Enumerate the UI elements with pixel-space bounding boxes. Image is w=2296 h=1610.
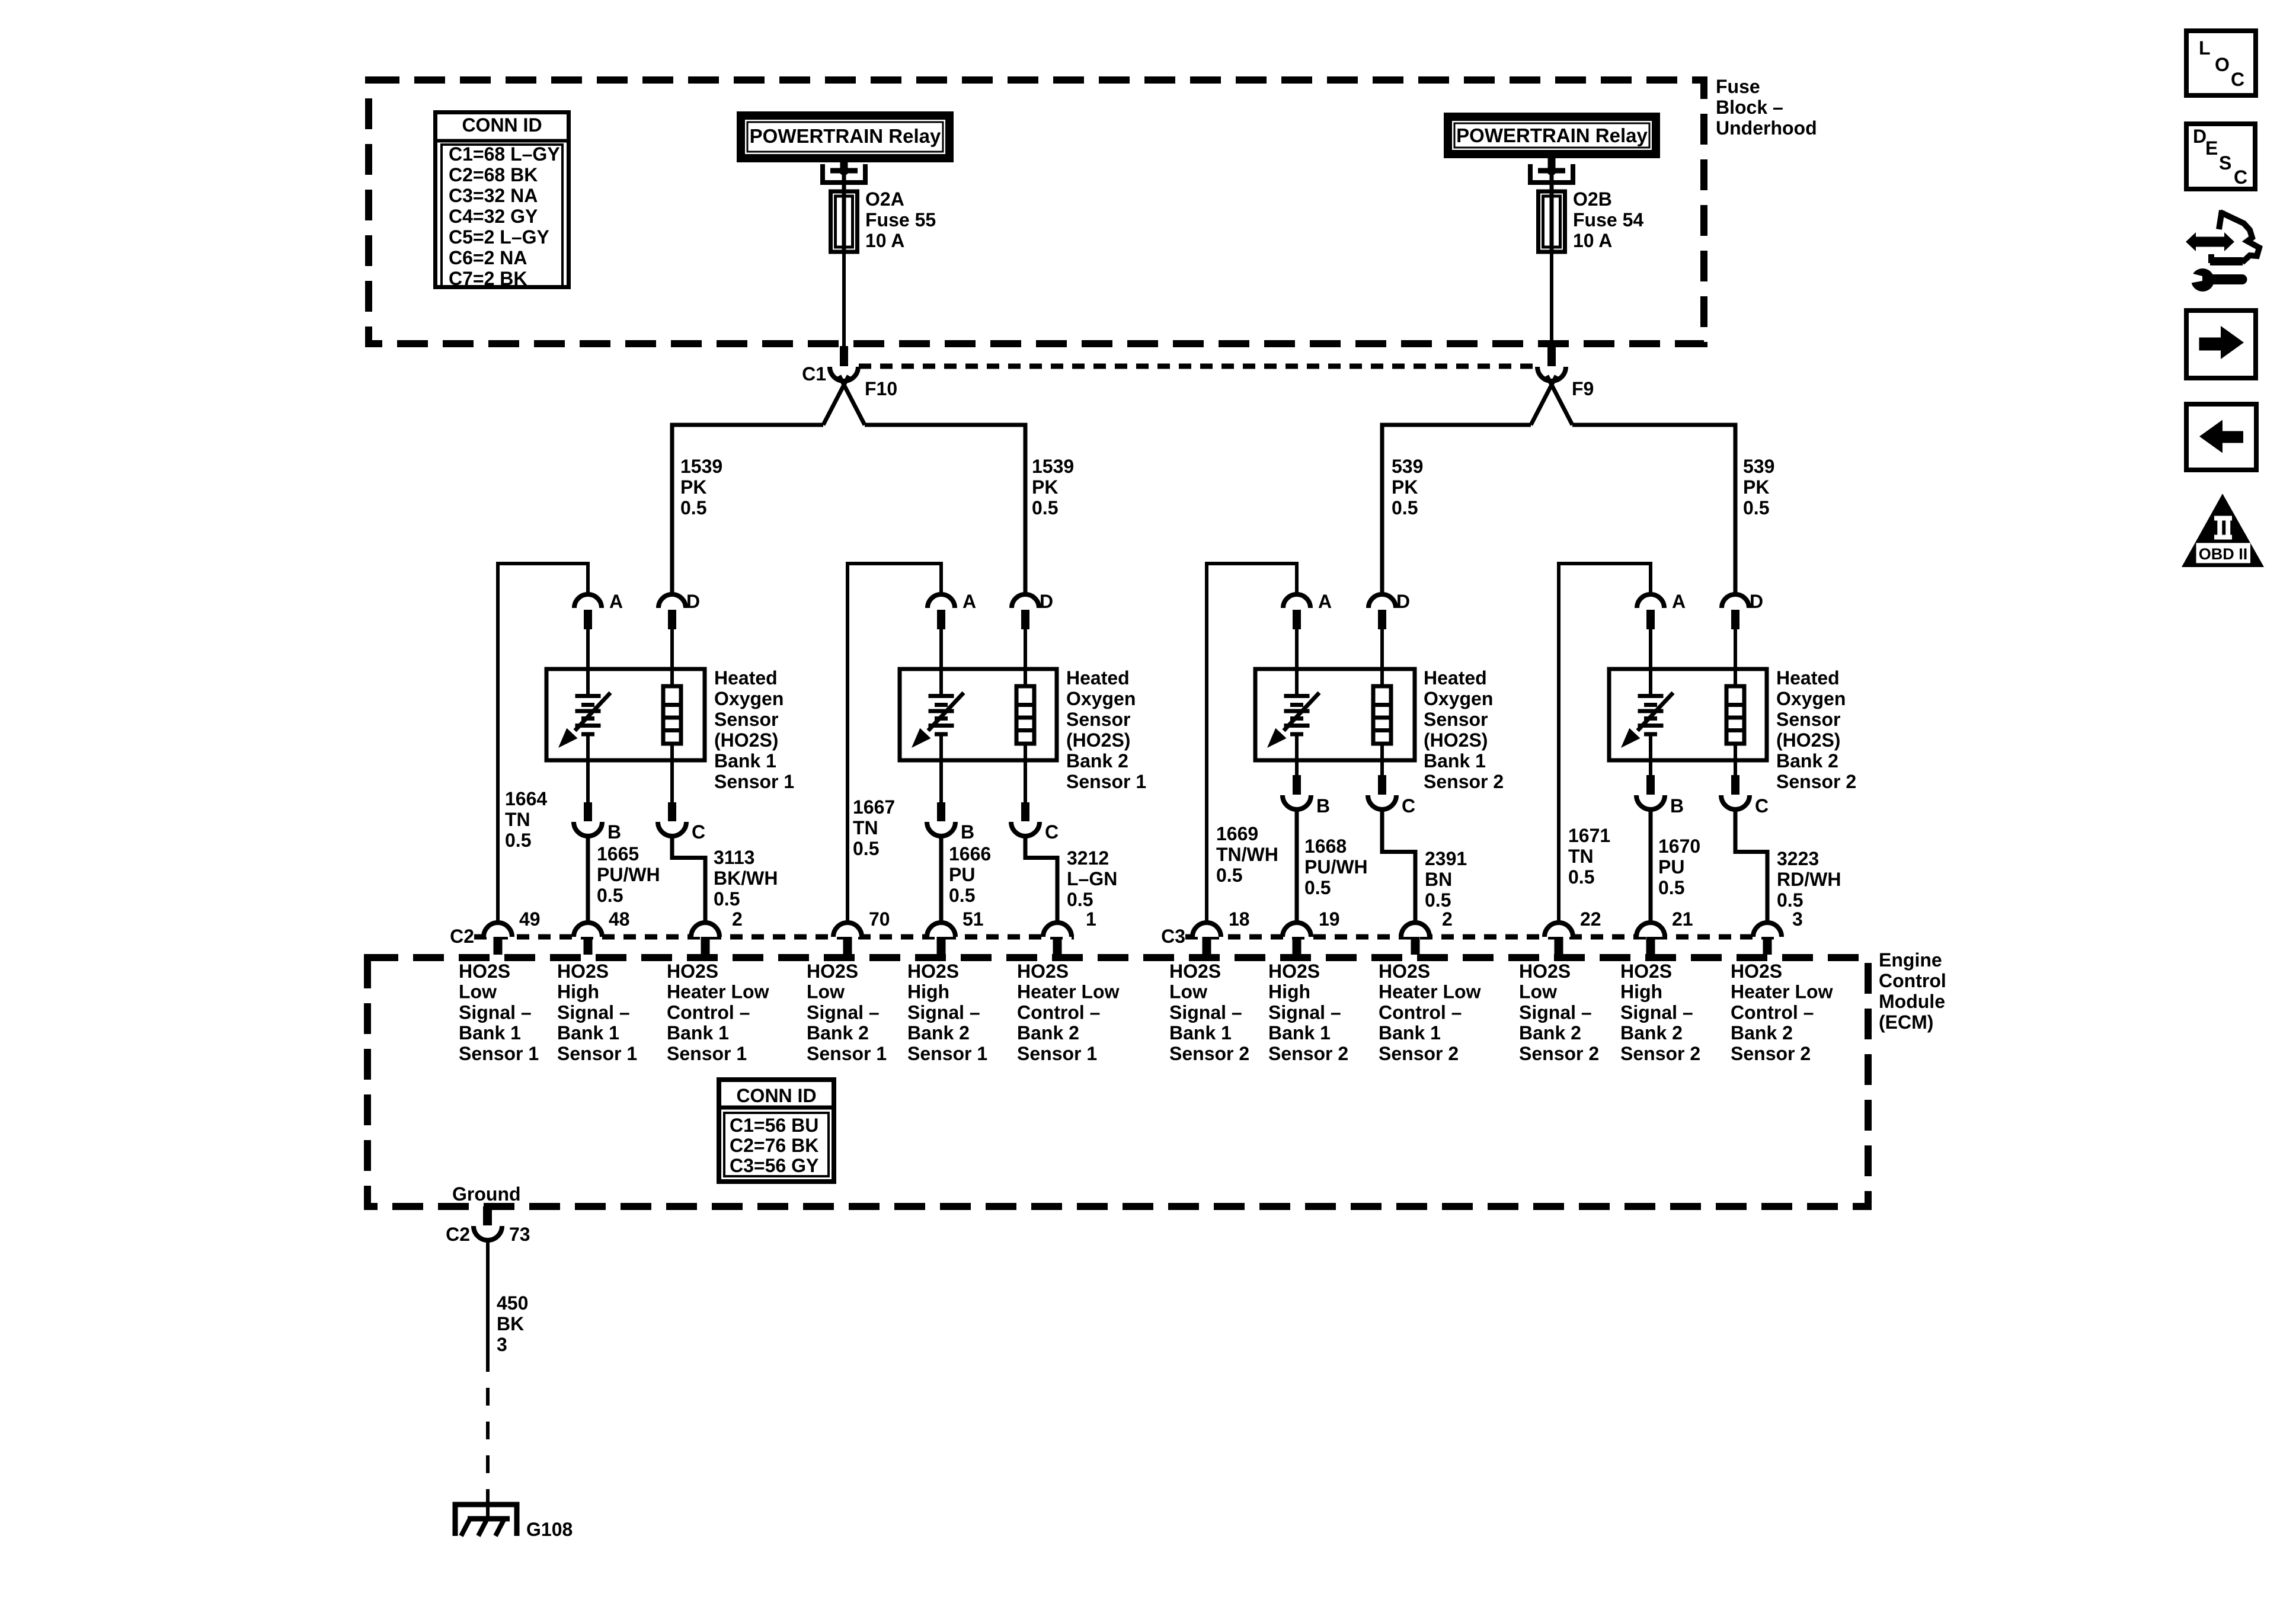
- svg-text:Underhood: Underhood: [1716, 117, 1817, 139]
- svg-text:S: S: [2219, 152, 2231, 174]
- ECM connector cavity pin 2: [691, 908, 743, 955]
- ground symbol G108: [455, 1505, 573, 1540]
- svg-text:HO2S: HO2S: [807, 961, 858, 982]
- svg-text:21: 21: [1672, 908, 1693, 930]
- wire: HO2S Bank 2 Sensor 2 signal low 1671 with top jog: [1559, 564, 1651, 923]
- svg-text:D: D: [1396, 591, 1410, 612]
- svg-text:22: 22: [1580, 908, 1601, 930]
- wire: HO2S Bank 1 Sensor 1 C heater low with jog to ECM pin 2: [672, 836, 705, 923]
- svg-text:C1=56 BU: C1=56 BU: [730, 1115, 818, 1136]
- connector C1 cavity F9 with splice: [1531, 346, 1594, 425]
- svg-text:D: D: [1040, 591, 1053, 612]
- svg-text:HO2S: HO2S: [1169, 961, 1221, 982]
- svg-text:0.5: 0.5: [853, 838, 879, 859]
- wire: fuse O2A to connector C1 F10: [842, 252, 846, 347]
- svg-text:(HO2S): (HO2S): [1424, 729, 1488, 751]
- svg-text:Bank 2: Bank 2: [1519, 1022, 1581, 1044]
- sensor element (variable voltage source) inside HO2S Bank 2 Sensor 1: [912, 669, 964, 760]
- svg-text:C3: C3: [1161, 926, 1185, 947]
- wire: HO2S Bank 2 Sensor 1 C heater low with jog to ECM pin 1: [1025, 836, 1057, 923]
- ECM pin function label column 1: HO2S Low Signal – Bank 1 Sensor 1: [459, 961, 539, 1064]
- svg-text:B: B: [1670, 795, 1684, 817]
- svg-text:0.5: 0.5: [1743, 497, 1769, 518]
- svg-text:Sensor 2: Sensor 2: [1169, 1043, 1249, 1064]
- ECM connector cavity pin 48: [574, 908, 630, 955]
- svg-text:Heater Low: Heater Low: [1731, 981, 1833, 1003]
- svg-text:Low: Low: [459, 981, 497, 1003]
- label connector C3: [1161, 926, 1185, 947]
- svg-text:Signal –: Signal –: [807, 1001, 880, 1023]
- label: Heated Oxygen Sensor (HO2S) Bank 1 Sensor 2: [1424, 667, 1504, 792]
- ECM pin function label column 2: HO2S High Signal – Bank 1 Sensor 1: [557, 961, 637, 1064]
- label: Heated Oxygen Sensor (HO2S) Bank 2 Sensor 1: [1066, 667, 1146, 792]
- wire: HO2S Bank 1 Sensor 1 B to ECM pin 48: [586, 836, 590, 923]
- svg-text:Bank 1: Bank 1: [714, 750, 776, 772]
- svg-text:Heater Low: Heater Low: [667, 981, 769, 1003]
- svg-text:0.5: 0.5: [1425, 889, 1451, 911]
- svg-text:1539: 1539: [680, 456, 722, 477]
- svg-text:HO2S: HO2S: [1620, 961, 1672, 982]
- svg-text:Signal –: Signal –: [1169, 1001, 1242, 1023]
- icon: OBD II triangle: [2182, 494, 2264, 567]
- sensor element (variable voltage source) inside HO2S Bank 1 Sensor 1: [558, 669, 610, 760]
- svg-text:Sensor 2: Sensor 2: [1731, 1043, 1811, 1064]
- svg-text:Bank 2: Bank 2: [1731, 1022, 1793, 1044]
- wire 450 BK dashed segment: [486, 1354, 490, 1505]
- svg-text:1: 1: [1086, 908, 1096, 930]
- svg-text:Bank 1: Bank 1: [557, 1022, 619, 1044]
- svg-text:Bank 1: Bank 1: [1379, 1022, 1441, 1044]
- connector row C3 dotted line: [1185, 934, 1782, 940]
- wire: HO2S Bank 2 Sensor 1 B to ECM pin 51: [939, 836, 944, 923]
- svg-text:A: A: [609, 591, 623, 612]
- svg-text:Oxygen: Oxygen: [1776, 688, 1846, 709]
- wire label 1671 TN 0.5: [1568, 825, 1610, 888]
- sensor element (variable voltage source) inside HO2S Bank 1 Sensor 2: [1267, 669, 1319, 760]
- svg-text:E: E: [2205, 137, 2218, 159]
- svg-text:0.5: 0.5: [1216, 865, 1242, 886]
- svg-text:0.5: 0.5: [505, 830, 531, 851]
- svg-text:2391: 2391: [1425, 848, 1467, 869]
- svg-text:C2: C2: [450, 926, 474, 947]
- wire label 539 PK 0.5 (right): [1743, 456, 1774, 518]
- svg-text:B: B: [607, 821, 621, 843]
- svg-text:Bank 2: Bank 2: [1017, 1022, 1079, 1044]
- relay: POWERTRAIN Relay (right): [1444, 113, 1660, 158]
- svg-text:C: C: [2231, 69, 2244, 90]
- svg-text:PU: PU: [949, 864, 975, 885]
- wire label 1665 PU/WH 0.5: [597, 843, 660, 906]
- svg-text:OBD II: OBD II: [2199, 545, 2248, 563]
- svg-text:Fuse 54: Fuse 54: [1573, 209, 1643, 231]
- svg-text:C3=32 NA: C3=32 NA: [449, 185, 538, 206]
- svg-text:C6=2 NA: C6=2 NA: [449, 247, 527, 268]
- svg-text:3212: 3212: [1067, 847, 1109, 869]
- svg-text:1668: 1668: [1304, 836, 1347, 857]
- svg-text:C: C: [1402, 795, 1415, 817]
- svg-text:RD/WH: RD/WH: [1777, 869, 1841, 890]
- svg-text:B: B: [961, 821, 974, 843]
- connector pin B of HO2S Bank 2 Sensor 2: [1636, 760, 1684, 817]
- svg-text:BK: BK: [497, 1313, 524, 1334]
- svg-text:F10: F10: [865, 378, 897, 399]
- svg-text:Heated: Heated: [714, 667, 778, 689]
- svg-text:Module: Module: [1879, 991, 1945, 1012]
- svg-text:450: 450: [497, 1292, 528, 1314]
- svg-text:(HO2S): (HO2S): [1066, 729, 1130, 751]
- svg-text:PU: PU: [1658, 856, 1684, 878]
- svg-text:PU/WH: PU/WH: [1304, 856, 1368, 878]
- ECM ground pin stub: [483, 1206, 492, 1225]
- svg-text:Signal –: Signal –: [907, 1001, 980, 1023]
- svg-text:Sensor 1: Sensor 1: [714, 771, 794, 792]
- ECM connector cavity pin 21: [1636, 908, 1693, 955]
- svg-text:(ECM): (ECM): [1879, 1012, 1933, 1033]
- connector pin D of HO2S Bank 1 Sensor 1: [658, 591, 700, 671]
- ECM pin function label column 10: HO2S Low Signal – Bank 2 Sensor 2: [1519, 961, 1599, 1064]
- icon: forward arrow box: [2186, 311, 2256, 378]
- svg-text:High: High: [557, 981, 599, 1003]
- svg-text:Sensor: Sensor: [714, 709, 778, 730]
- svg-text:Sensor 2: Sensor 2: [1620, 1043, 1700, 1064]
- svg-text:HO2S: HO2S: [1519, 961, 1571, 982]
- connector pin C of HO2S Bank 1 Sensor 1: [658, 760, 705, 843]
- label: Heated Oxygen Sensor (HO2S) Bank 2 Sensor 2: [1776, 667, 1856, 792]
- CONN ID table (ECM connectors): [717, 1080, 836, 1182]
- icon: harness routing wrench with double arrow: [2186, 210, 2259, 292]
- svg-text:Signal –: Signal –: [1620, 1001, 1693, 1023]
- ground connector C2 cavity 73: [446, 1224, 530, 1245]
- svg-text:HO2S: HO2S: [459, 961, 510, 982]
- svg-text:(HO2S): (HO2S): [1776, 729, 1840, 751]
- connector pin A of HO2S Bank 1 Sensor 2: [1283, 591, 1332, 671]
- svg-text:73: 73: [509, 1224, 530, 1245]
- svg-text:A: A: [962, 591, 976, 612]
- heater element inside HO2S Bank 2 Sensor 1: [1016, 669, 1034, 760]
- svg-text:Signal –: Signal –: [1519, 1001, 1592, 1023]
- connector row C2 dotted line: [474, 934, 1074, 940]
- wire: HO2S Bank 2 Sensor 1 signal low 1667 with top jog: [848, 564, 941, 923]
- svg-text:HO2S: HO2S: [557, 961, 609, 982]
- svg-text:HO2S: HO2S: [667, 961, 718, 982]
- ECM connector cavity pin 18: [1192, 908, 1250, 955]
- svg-text:Low: Low: [1519, 981, 1557, 1003]
- wire label 3223 RD/WH 0.5: [1777, 848, 1841, 911]
- connector pin C of HO2S Bank 2 Sensor 2: [1721, 760, 1769, 817]
- wire: HO2S Bank 2 Sensor 2 C heater low with jog to ECM pin 3: [1735, 809, 1767, 923]
- ECM pin function label column 8: HO2S High Signal – Bank 1 Sensor 2: [1268, 961, 1348, 1064]
- svg-text:C2: C2: [446, 1224, 470, 1245]
- svg-text:A: A: [1318, 591, 1332, 612]
- svg-text:HO2S: HO2S: [907, 961, 959, 982]
- wire: HO2S Bank 1 Sensor 1 signal low 1664 with top jog: [498, 564, 588, 923]
- svg-text:3113: 3113: [714, 847, 754, 868]
- svg-text:Bank 2: Bank 2: [1066, 750, 1128, 772]
- svg-text:Signal –: Signal –: [459, 1001, 532, 1023]
- sensor box outline HO2S Bank 1 Sensor 2: [1255, 669, 1415, 760]
- svg-text:Bank 1: Bank 1: [459, 1022, 521, 1044]
- svg-text:70: 70: [869, 908, 890, 930]
- ECM connector cavity pin 70: [833, 908, 890, 955]
- svg-text:49: 49: [519, 908, 541, 930]
- svg-text:Sensor: Sensor: [1066, 709, 1130, 730]
- svg-text:3: 3: [497, 1334, 507, 1355]
- label Ground: [452, 1183, 521, 1205]
- svg-text:C5=2 L–GY: C5=2 L–GY: [449, 226, 549, 248]
- label connector C2: [450, 926, 474, 947]
- svg-text:18: 18: [1229, 908, 1250, 930]
- connector C1 cavity F10 with splice: [802, 346, 897, 425]
- svg-text:Sensor: Sensor: [1776, 709, 1840, 730]
- svg-text:1539: 1539: [1032, 456, 1074, 477]
- svg-text:Sensor 1: Sensor 1: [459, 1043, 539, 1064]
- svg-text:High: High: [1268, 981, 1310, 1003]
- icon: back arrow box: [2186, 404, 2256, 470]
- svg-text:1670: 1670: [1658, 836, 1700, 857]
- svg-text:O2B: O2B: [1573, 188, 1612, 210]
- connector pin C of HO2S Bank 2 Sensor 1: [1011, 760, 1059, 843]
- svg-text:C: C: [692, 821, 705, 843]
- wire label 3113 BK/WH 0.5: [714, 847, 778, 910]
- svg-text:3: 3: [1792, 908, 1803, 930]
- svg-text:1666: 1666: [949, 843, 991, 865]
- svg-text:L: L: [2199, 37, 2211, 59]
- wire label 1664 TN 0.5: [505, 788, 547, 851]
- ECM pin function label column 3: HO2S Heater Low Control – Bank 1 Sensor 1: [667, 961, 769, 1064]
- CONN ID table (fuse block connectors): [433, 113, 571, 290]
- svg-text:Sensor 1: Sensor 1: [667, 1043, 747, 1064]
- wire label 1667 TN 0.5: [853, 796, 895, 859]
- Engine Control Module dashed outline: [367, 958, 1868, 1206]
- connector pin B of HO2S Bank 1 Sensor 2: [1283, 760, 1330, 817]
- ECM connector cavity pin 22: [1544, 908, 1601, 955]
- svg-text:HO2S: HO2S: [1731, 961, 1782, 982]
- svg-text:Bank 2: Bank 2: [1776, 750, 1838, 772]
- svg-text:0.5: 0.5: [1568, 866, 1594, 888]
- svg-text:D: D: [686, 591, 700, 612]
- svg-text:Bank 1: Bank 1: [1169, 1022, 1232, 1044]
- wire 450 BK 3 solid segment: [486, 1240, 490, 1354]
- wire label 3212 L–GN 0.5: [1067, 847, 1117, 910]
- svg-text:0.5: 0.5: [1067, 889, 1093, 910]
- sensor element (variable voltage source) inside HO2S Bank 2 Sensor 2: [1621, 669, 1673, 760]
- connector pin A of HO2S Bank 2 Sensor 1: [928, 591, 976, 671]
- wire bus from F9 to HO2S B1S2/B2S2 heater supplies: [1382, 425, 1735, 595]
- svg-text:C2=68 BK: C2=68 BK: [449, 164, 538, 185]
- svg-text:2: 2: [1442, 908, 1453, 930]
- connector pin D of HO2S Bank 2 Sensor 2: [1722, 591, 1763, 671]
- icon: LOC box: [2186, 31, 2256, 95]
- svg-text:Sensor 1: Sensor 1: [907, 1043, 987, 1064]
- svg-text:Control: Control: [1879, 970, 1946, 991]
- svg-text:2: 2: [732, 908, 743, 930]
- wire: HO2S Bank 1 Sensor 2 B to ECM pin 19: [1295, 809, 1299, 923]
- connector pin A of HO2S Bank 1 Sensor 1: [574, 591, 623, 671]
- svg-text:POWERTRAIN Relay: POWERTRAIN Relay: [1456, 124, 1648, 146]
- svg-text:BK/WH: BK/WH: [714, 868, 778, 889]
- svg-text:Bank 1: Bank 1: [667, 1022, 729, 1044]
- svg-text:Control –: Control –: [667, 1001, 750, 1023]
- svg-text:PU/WH: PU/WH: [597, 864, 660, 885]
- svg-text:Sensor 1: Sensor 1: [1066, 771, 1146, 792]
- svg-text:C1: C1: [802, 363, 826, 385]
- svg-text:1667: 1667: [853, 796, 895, 818]
- svg-text:539: 539: [1392, 456, 1423, 477]
- heater element inside HO2S Bank 2 Sensor 2: [1726, 669, 1744, 760]
- fuse block - underhood dashed outline: [369, 80, 1704, 344]
- svg-text:0.5: 0.5: [1658, 877, 1684, 898]
- svg-text:Bank 2: Bank 2: [807, 1022, 869, 1044]
- svg-text:CONN ID: CONN ID: [736, 1085, 816, 1106]
- wire bus from F10 to HO2S B1S1/B2S1 heater supplies: [672, 425, 1025, 595]
- svg-text:HO2S: HO2S: [1268, 961, 1320, 982]
- svg-text:Heater Low: Heater Low: [1379, 981, 1481, 1003]
- svg-text:Block –: Block –: [1716, 97, 1783, 118]
- svg-text:C7=2 BK: C7=2 BK: [449, 268, 527, 289]
- svg-text:Sensor 1: Sensor 1: [1017, 1043, 1097, 1064]
- svg-text:Heater Low: Heater Low: [1017, 981, 1120, 1003]
- svg-text:0.5: 0.5: [680, 497, 706, 518]
- svg-text:3223: 3223: [1777, 848, 1819, 869]
- svg-text:C: C: [1755, 795, 1769, 817]
- wire label 1670 PU 0.5: [1658, 836, 1700, 898]
- heater element inside HO2S Bank 1 Sensor 2: [1373, 669, 1391, 760]
- svg-text:Control –: Control –: [1731, 1001, 1814, 1023]
- svg-text:Bank 1: Bank 1: [1268, 1022, 1331, 1044]
- connector pin A of HO2S Bank 2 Sensor 2: [1637, 591, 1686, 671]
- svg-text:PK: PK: [1392, 476, 1418, 498]
- ECM pin function label column 9: HO2S Heater Low Control – Bank 1 Sensor 2: [1379, 961, 1481, 1064]
- svg-text:Low: Low: [807, 981, 845, 1003]
- label: Engine Control Module (ECM): [1879, 949, 1946, 1033]
- wire: fuse O2B to connector C1 F9: [1550, 252, 1553, 347]
- svg-text:1665: 1665: [597, 843, 639, 865]
- svg-text:Low: Low: [1169, 981, 1207, 1003]
- wire into ground symbol: [486, 1493, 490, 1519]
- svg-text:Sensor 2: Sensor 2: [1519, 1043, 1599, 1064]
- svg-text:G108: G108: [526, 1519, 573, 1540]
- svg-text:POWERTRAIN Relay: POWERTRAIN Relay: [750, 125, 941, 147]
- svg-text:0.5: 0.5: [1392, 497, 1418, 518]
- svg-text:Control –: Control –: [1017, 1001, 1100, 1023]
- svg-text:Engine: Engine: [1879, 949, 1942, 971]
- svg-text:0.5: 0.5: [597, 885, 623, 906]
- ECM pin function label column 4: HO2S Low Signal – Bank 2 Sensor 1: [807, 961, 887, 1064]
- svg-text:Sensor 1: Sensor 1: [557, 1043, 637, 1064]
- sensor box outline HO2S Bank 2 Sensor 1: [900, 669, 1057, 760]
- svg-text:TN/WH: TN/WH: [1216, 844, 1278, 865]
- svg-text:10 A: 10 A: [1573, 230, 1612, 251]
- wire label 1669 TN/WH 0.5: [1216, 823, 1278, 886]
- svg-text:HO2S: HO2S: [1017, 961, 1069, 982]
- svg-text:C4=32 GY: C4=32 GY: [449, 206, 538, 227]
- svg-text:D: D: [1750, 591, 1763, 612]
- heater element inside HO2S Bank 1 Sensor 1: [663, 669, 681, 760]
- svg-text:(HO2S): (HO2S): [714, 729, 778, 751]
- svg-text:Bank 1: Bank 1: [1424, 750, 1486, 772]
- svg-text:Heated: Heated: [1776, 667, 1840, 689]
- svg-text:Signal –: Signal –: [1268, 1001, 1341, 1023]
- wire label 2391 BN 0.5: [1425, 848, 1467, 911]
- svg-text:Ground: Ground: [452, 1183, 521, 1205]
- ECM connector cavity pin 2: [1401, 908, 1453, 955]
- svg-text:Signal –: Signal –: [557, 1001, 630, 1023]
- svg-text:O: O: [2215, 54, 2230, 75]
- svg-text:C2=76 BK: C2=76 BK: [730, 1135, 818, 1156]
- svg-text:0.5: 0.5: [1304, 877, 1331, 898]
- svg-text:Heated: Heated: [1066, 667, 1130, 689]
- relay: POWERTRAIN Relay (left): [737, 111, 954, 162]
- wire: HO2S Bank 2 Sensor 2 B to ECM pin 21: [1649, 809, 1653, 923]
- sensor box outline HO2S Bank 2 Sensor 2: [1609, 669, 1767, 760]
- connector pin D of HO2S Bank 1 Sensor 2: [1368, 591, 1410, 671]
- svg-text:51: 51: [962, 908, 984, 930]
- svg-text:Fuse 55: Fuse 55: [865, 209, 936, 231]
- svg-text:1669: 1669: [1216, 823, 1258, 844]
- icon: DESC box: [2186, 124, 2255, 189]
- relay contact pin symbol (right relay): [1530, 158, 1573, 196]
- svg-text:Oxygen: Oxygen: [1066, 688, 1136, 709]
- svg-text:C1=68 L–GY: C1=68 L–GY: [449, 143, 560, 165]
- ECM connector cavity pin 49: [484, 908, 541, 955]
- fuse O2A Fuse 55 10 A: [831, 188, 936, 252]
- svg-text:Sensor 2: Sensor 2: [1776, 771, 1856, 792]
- svg-text:D: D: [2193, 126, 2207, 147]
- svg-text:Sensor 2: Sensor 2: [1424, 771, 1504, 792]
- svg-text:Oxygen: Oxygen: [1424, 688, 1493, 709]
- connector pin C of HO2S Bank 1 Sensor 2: [1368, 760, 1415, 817]
- svg-text:A: A: [1672, 591, 1686, 612]
- ECM pin function label column 7: HO2S Low Signal – Bank 1 Sensor 2: [1169, 961, 1249, 1064]
- svg-text:C: C: [2234, 167, 2247, 188]
- svg-text:HO2S: HO2S: [1379, 961, 1430, 982]
- svg-text:48: 48: [609, 908, 630, 930]
- svg-text:Sensor 1: Sensor 1: [807, 1043, 887, 1064]
- relay contact pin symbol (left relay): [823, 162, 865, 196]
- svg-text:0.5: 0.5: [1032, 497, 1058, 518]
- svg-text:TN: TN: [505, 809, 530, 830]
- svg-text:Sensor 2: Sensor 2: [1268, 1043, 1348, 1064]
- svg-text:C: C: [1045, 821, 1059, 843]
- svg-text:L–GN: L–GN: [1067, 868, 1117, 889]
- svg-text:TN: TN: [1568, 846, 1594, 867]
- svg-text:1671: 1671: [1568, 825, 1610, 846]
- svg-text:F9: F9: [1572, 378, 1594, 399]
- wire label 1666 PU 0.5: [949, 843, 991, 906]
- svg-text:High: High: [1620, 981, 1662, 1003]
- fuse O2B Fuse 54 10 A: [1539, 188, 1644, 252]
- svg-text:0.5: 0.5: [1777, 889, 1803, 911]
- ECM connector cavity pin 51: [927, 908, 984, 955]
- ECM pin function label column 11: HO2S High Signal – Bank 2 Sensor 2: [1620, 961, 1700, 1064]
- svg-text:O2A: O2A: [865, 188, 904, 210]
- connector pin B of HO2S Bank 2 Sensor 1: [927, 760, 974, 843]
- svg-text:High: High: [907, 981, 949, 1003]
- ECM connector cavity pin 19: [1283, 908, 1340, 955]
- svg-text:Fuse: Fuse: [1716, 76, 1760, 97]
- label: Fuse Block - Underhood: [1716, 76, 1817, 139]
- wire label 539 PK 0.5 (left): [1392, 456, 1423, 518]
- svg-text:CONN ID: CONN ID: [462, 114, 542, 136]
- wire: HO2S Bank 1 Sensor 2 signal low 1669 with top jog: [1207, 564, 1297, 923]
- wire: HO2S Bank 1 Sensor 2 C heater low with jog to ECM pin 2: [1382, 809, 1415, 923]
- label: Heated Oxygen Sensor (HO2S) Bank 1 Sensor 1: [714, 667, 794, 792]
- svg-text:TN: TN: [853, 817, 878, 838]
- svg-text:19: 19: [1319, 908, 1340, 930]
- svg-text:Sensor: Sensor: [1424, 709, 1488, 730]
- connector pin B of HO2S Bank 1 Sensor 1: [574, 760, 621, 843]
- sensor box outline HO2S Bank 1 Sensor 1: [546, 669, 705, 760]
